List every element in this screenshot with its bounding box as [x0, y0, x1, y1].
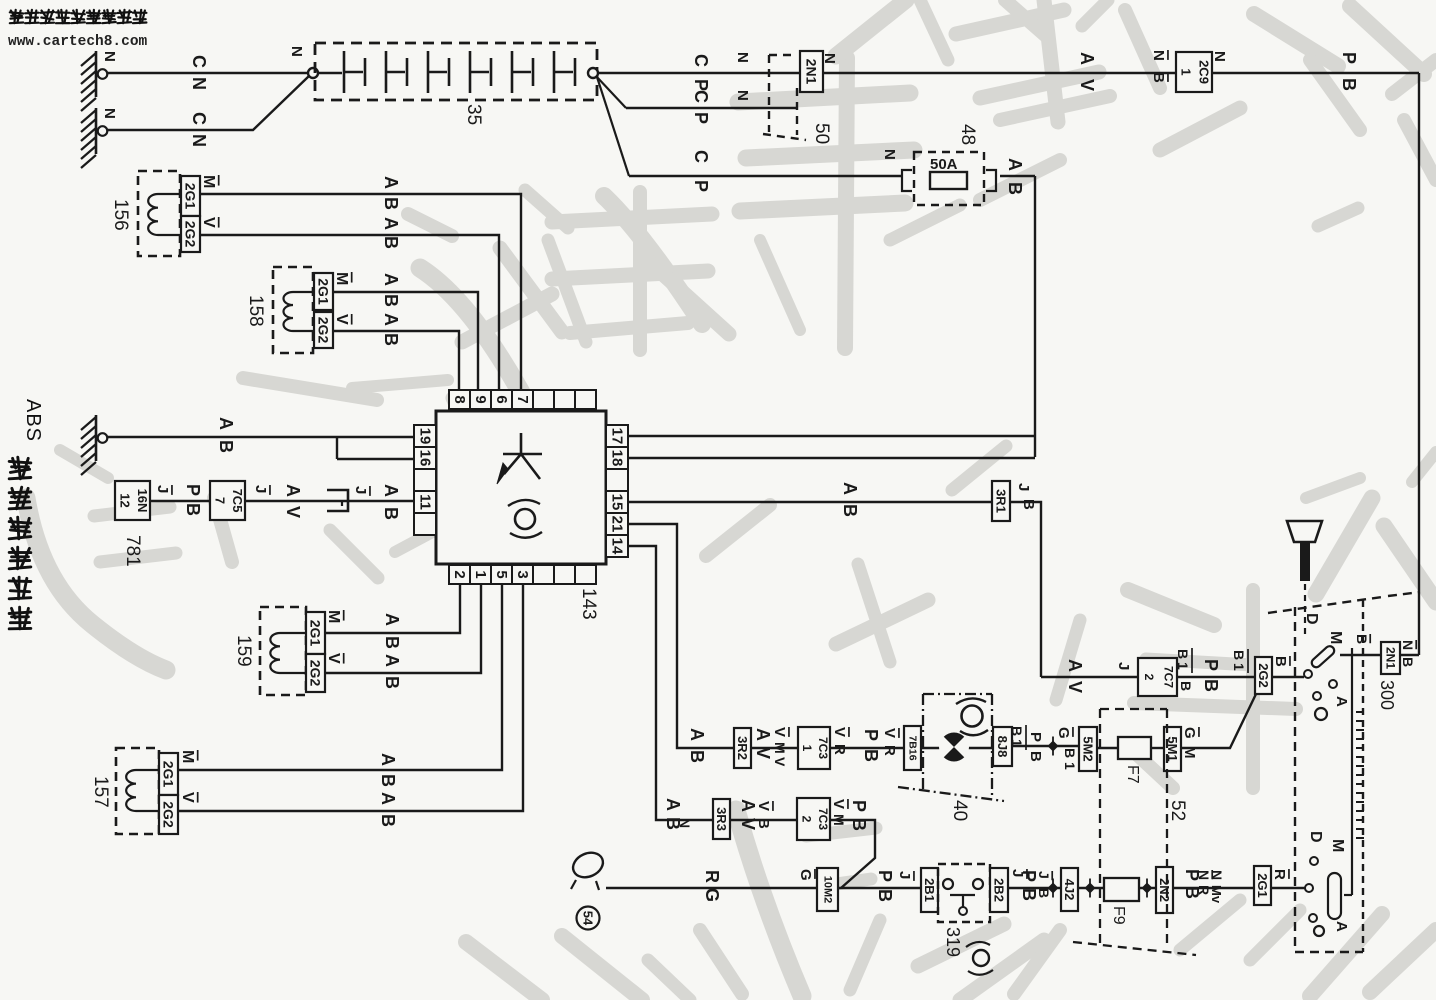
svg-text:2G1: 2G1 — [308, 620, 324, 647]
svg-text:N: N — [881, 149, 898, 160]
connector 3R1 — [992, 481, 1010, 521]
svg-text:50A: 50A — [930, 156, 958, 173]
wire 159 M to pin2 — [325, 585, 460, 633]
svg-text:C: C — [189, 55, 209, 68]
svg-text:7C5: 7C5 — [230, 489, 245, 513]
wire 10M2 to 2B1 — [838, 887, 921, 889]
svg-text:16: 16 — [417, 450, 434, 467]
svg-text:B: B — [849, 818, 869, 831]
svg-text:J: J — [1036, 871, 1052, 879]
svg-text:2: 2 — [451, 570, 468, 578]
ECU internal pump-arrow symbol — [503, 433, 542, 479]
svg-text:2N1: 2N1 — [804, 59, 820, 85]
svg-text:C: C — [691, 150, 711, 163]
site logo text — [10, 12, 23, 13]
svg-text:P: P — [1201, 659, 1221, 671]
wire AB to pin19 with branch to pin16 — [107, 436, 414, 438]
wire 5M1 to 2G2 (diagonal) — [1181, 694, 1256, 748]
svg-text:B: B — [1178, 681, 1194, 691]
wire 7C3-1 to 7B16 — [830, 747, 904, 749]
(O) symbol under 319 — [973, 950, 989, 966]
svg-text:15: 15 — [609, 494, 626, 511]
svg-text:A: A — [738, 799, 758, 812]
wire 2B2 to 4J2 — [1008, 887, 1061, 889]
connector 7C5 / 7 — [210, 481, 245, 520]
svg-text:A: A — [687, 728, 707, 741]
node junction right of connector 35 — [588, 68, 598, 78]
svg-text:www.cartech8.com: www.cartech8.com — [8, 34, 148, 50]
svg-text:R: R — [881, 745, 898, 756]
svg-text:159: 159 — [233, 635, 254, 667]
svg-text:B: B — [1354, 634, 1370, 644]
connector 5M1 — [1164, 727, 1181, 771]
svg-text:B: B — [381, 294, 401, 307]
connector 2G1 of 157 — [159, 753, 178, 795]
svg-text:V: V — [325, 653, 342, 664]
svg-text:B: B — [840, 504, 860, 517]
wheel speed sensor 156 (dashed) — [138, 171, 180, 256]
svg-text:P: P — [861, 729, 881, 741]
wire 781 to 7C5 — [150, 500, 210, 502]
svg-text:5: 5 — [493, 570, 510, 578]
pressure switch 319 (dashed) — [938, 864, 990, 922]
wire down from fuse to pins 17/18 — [1034, 176, 1036, 457]
fuse 48 50A (dashed box) — [914, 152, 984, 205]
connector 2N2 — [1156, 867, 1173, 913]
svg-text:2: 2 — [799, 816, 813, 823]
svg-text:B: B — [1201, 679, 1221, 692]
svg-text:B: B — [1027, 751, 1044, 762]
svg-text:V: V — [772, 757, 788, 767]
svg-text:16N: 16N — [135, 489, 150, 513]
connector 5M2 — [1079, 727, 1097, 771]
svg-text:A: A — [381, 484, 401, 497]
svg-text:V: V — [283, 506, 303, 518]
svg-text:12: 12 — [117, 493, 132, 507]
svg-text:B: B — [382, 676, 402, 689]
svg-text:B: B — [1231, 650, 1247, 660]
svg-text:B: B — [861, 749, 881, 762]
junction — [1085, 883, 1096, 894]
svg-text:V: V — [738, 818, 758, 830]
wire CP mid — [626, 107, 797, 109]
ground N (second) — [95, 108, 98, 154]
svg-text:2G2: 2G2 — [316, 317, 332, 344]
svg-text:17: 17 — [609, 428, 626, 445]
fuse F9 — [1104, 878, 1139, 901]
svg-text:N: N — [101, 51, 118, 62]
svg-text:7B16: 7B16 — [907, 735, 919, 760]
wheel speed sensor 158 (dashed) — [273, 267, 313, 353]
wire 156 V to pin6 — [200, 235, 499, 390]
svg-text:M: M — [200, 175, 217, 188]
wire 2G2 to ignition contact — [1272, 676, 1304, 678]
svg-text:7C7: 7C7 — [1161, 666, 1175, 688]
wire 7C3-2 to 10M2 (corner+diagonal) — [830, 820, 875, 888]
svg-text:J: J — [154, 485, 171, 493]
wire 2N2 to 2G1 — [1173, 887, 1254, 889]
svg-text:B: B — [382, 636, 402, 649]
svg-text:143: 143 — [578, 588, 599, 620]
svg-text:N: N — [189, 77, 209, 90]
connector 2N1 on feed wire — [800, 51, 823, 92]
wire pin14 down to valve row — [628, 546, 713, 820]
svg-text:52: 52 — [1167, 800, 1188, 821]
svg-text:19: 19 — [417, 428, 434, 445]
switch mechanical ladder ticks — [1356, 711, 1364, 713]
ground N (top) — [95, 51, 98, 97]
svg-text:R: R — [1271, 869, 1288, 880]
svg-text:G: G — [702, 888, 722, 902]
connector 2G2 of 159 — [306, 654, 325, 692]
connector 2G2 of 157 — [159, 795, 178, 834]
wire CN upper — [107, 72, 309, 74]
svg-text:3R1: 3R1 — [994, 489, 1009, 513]
svg-text:2N1: 2N1 — [1384, 647, 1398, 669]
svg-text:B: B — [1175, 649, 1191, 659]
wire right edge down to ignition switch — [1418, 73, 1420, 655]
svg-text:M: M — [772, 742, 788, 754]
svg-text:B: B — [183, 503, 203, 516]
svg-text:N: N — [1211, 51, 1228, 62]
connector 16N 12 (unit 781) — [115, 481, 150, 520]
svg-text:N: N — [734, 90, 751, 101]
svg-text:ABS: ABS — [22, 399, 44, 442]
wire CN lower with rise to node — [107, 76, 309, 130]
wire pin21 down to modulator row — [628, 524, 734, 748]
svg-text:3: 3 — [514, 570, 531, 578]
svg-text:1: 1 — [1179, 68, 1194, 75]
sensor 156 coil — [148, 194, 181, 235]
wire 2G1 to ignition contact — [1271, 887, 1308, 889]
svg-text:50: 50 — [811, 123, 832, 144]
svg-text:B: B — [1272, 656, 1289, 667]
wire 8J8 to 5M2 — [1012, 745, 1079, 747]
svg-text:F9: F9 — [1110, 906, 1127, 925]
svg-text:J: J — [252, 485, 269, 493]
svg-text:B: B — [1005, 182, 1025, 195]
svg-text:A: A — [381, 176, 401, 189]
fuse element — [930, 172, 967, 189]
svg-text:M: M — [1327, 631, 1344, 644]
svg-text:B: B — [755, 818, 772, 829]
connector 3R2 — [734, 728, 751, 768]
svg-text:J: J — [352, 486, 369, 494]
wire 157 M to pin5 — [178, 585, 502, 770]
svg-text:B: B — [1020, 499, 1037, 510]
wire 7C7 to 2G2 — [1177, 676, 1255, 678]
wire CP low to fuse — [629, 175, 901, 177]
fuse terminal right — [986, 170, 996, 191]
svg-text:1: 1 — [1009, 739, 1025, 747]
svg-text:2G1: 2G1 — [316, 278, 332, 305]
node junction left of connector 35 — [308, 68, 318, 78]
svg-text:B: B — [1400, 657, 1416, 667]
connector 2B1 — [921, 868, 938, 912]
fuse F7 — [1118, 737, 1151, 759]
svg-text:2N2: 2N2 — [1157, 878, 1172, 902]
svg-text:11: 11 — [417, 494, 434, 510]
svg-text:2G1: 2G1 — [183, 183, 199, 210]
connector 2G2 of 158 — [314, 312, 333, 348]
svg-text:B: B — [875, 889, 895, 902]
connector 2N1 (ignition feed) — [1381, 642, 1400, 674]
svg-text:A: A — [381, 217, 401, 230]
junction — [1142, 883, 1153, 894]
svg-text:M: M — [325, 610, 342, 623]
svg-text:A: A — [378, 792, 398, 805]
ignition switch housing 300 (dashed) — [1294, 607, 1296, 952]
svg-text:A: A — [753, 728, 773, 741]
sensor 159 coil — [270, 633, 307, 673]
connector 7B16 — [904, 726, 921, 770]
svg-text:N: N — [677, 818, 693, 828]
svg-text:A: A — [382, 613, 402, 626]
svg-text:156: 156 — [110, 199, 131, 231]
ECU bottom pin row — [449, 565, 470, 584]
junction — [1048, 741, 1059, 752]
svg-text:J: J — [896, 871, 913, 879]
svg-text:B: B — [216, 440, 236, 453]
svg-text:14: 14 — [609, 538, 626, 555]
svg-text:54: 54 — [581, 911, 596, 926]
svg-text:R: R — [831, 744, 848, 755]
svg-text:B: B — [381, 236, 401, 249]
wire lamp to 10M2 — [606, 887, 817, 889]
svg-text:B: B — [381, 197, 401, 210]
connector 4J2 — [1061, 868, 1078, 911]
ECU internal (O) symbol — [515, 509, 535, 529]
ground (ECU supply) — [95, 415, 98, 461]
svg-text:B: B — [1009, 726, 1025, 736]
svg-text:2: 2 — [1142, 674, 1156, 681]
svg-text:21: 21 — [609, 516, 626, 533]
svg-text:2G2: 2G2 — [183, 221, 199, 248]
svg-text:F7: F7 — [1124, 765, 1141, 784]
svg-text:A: A — [382, 654, 402, 667]
connector 8J8 — [993, 727, 1012, 766]
svg-text:N: N — [101, 108, 118, 119]
connector 2G2 (ignition) — [1255, 657, 1272, 694]
svg-text:N: N — [1209, 870, 1225, 880]
svg-text:6: 6 — [493, 395, 510, 403]
connector 7C7 / 2 — [1138, 658, 1177, 696]
svg-text:V: V — [831, 727, 848, 737]
wire through pump unit 40 — [921, 747, 993, 749]
inline clip connector on pin11 wire — [327, 490, 348, 511]
svg-text:G: G — [1181, 727, 1198, 739]
svg-text:V: V — [179, 792, 196, 803]
wire 3R2 to 7C3-1 — [751, 747, 798, 749]
label 54 circled — [577, 907, 600, 930]
svg-text:35: 35 — [463, 104, 484, 125]
svg-text:B: B — [381, 333, 401, 346]
svg-text:B: B — [378, 774, 398, 787]
svg-text:A: A — [1065, 659, 1085, 672]
svg-text:V: V — [200, 217, 217, 228]
svg-text:157: 157 — [90, 776, 111, 808]
svg-text:7C3: 7C3 — [816, 808, 830, 830]
fuse box 52 (dashed) — [1100, 709, 1167, 946]
wire fuse out to corner — [1000, 175, 1035, 177]
svg-text:P: P — [1339, 52, 1359, 64]
svg-text:2B1: 2B1 — [922, 878, 937, 902]
svg-text:40: 40 — [949, 800, 970, 821]
svg-text:B: B — [687, 750, 707, 763]
svg-text:V: V — [1077, 79, 1097, 91]
svg-text:A: A — [216, 417, 236, 430]
svg-text:D: D — [1303, 613, 1320, 625]
svg-text:5M2: 5M2 — [1081, 736, 1096, 761]
svg-text:M: M — [179, 750, 196, 763]
svg-text:N: N — [189, 134, 209, 147]
sensor 157 coil — [126, 770, 160, 811]
svg-text:2C9: 2C9 — [1197, 60, 1212, 84]
wire 3R1 to corner down to AV row — [1010, 502, 1041, 677]
svg-text:C: C — [189, 112, 209, 125]
svg-text:P: P — [875, 870, 895, 882]
connector 2G1 of 156 — [181, 176, 200, 216]
warning lamp 54 — [569, 848, 607, 882]
ignition key symbol — [1287, 521, 1322, 542]
svg-text:P: P — [183, 484, 203, 496]
svg-text:J: J — [1115, 662, 1132, 670]
svg-text:A: A — [840, 482, 860, 495]
connector 2B2 — [990, 868, 1008, 912]
svg-text:319: 319 — [943, 927, 963, 957]
svg-text:A: A — [1077, 52, 1097, 65]
wire 158 V to pin8 — [333, 331, 459, 390]
svg-text:N: N — [1400, 640, 1416, 650]
wheel speed sensor 157 (dashed) — [116, 748, 159, 834]
svg-text:B: B — [378, 814, 398, 827]
wire 5M2 to F7 — [1097, 747, 1118, 749]
wire branch to CP low — [597, 77, 629, 176]
svg-text:18: 18 — [609, 450, 626, 467]
dashed link key to switch — [1304, 584, 1306, 634]
svg-text:V: V — [830, 799, 847, 809]
wire 157 V to pin3 — [178, 585, 523, 811]
wire branch to CP mid — [596, 76, 626, 108]
wire feed top (to right edge) — [598, 72, 1419, 74]
wire 4J2 to F9 — [1078, 887, 1104, 889]
svg-text:V: V — [881, 728, 898, 738]
ECU top pin row — [449, 390, 470, 409]
svg-text:1: 1 — [1175, 662, 1191, 670]
svg-text:B: B — [1339, 78, 1359, 91]
svg-text:B: B — [1019, 888, 1039, 901]
stop switch 50 (dashed) — [768, 55, 770, 132]
ABS ECU 143 body — [436, 411, 606, 564]
svg-text:A: A — [283, 484, 303, 497]
svg-text:C: C — [691, 54, 711, 67]
svg-text:7C3: 7C3 — [816, 737, 830, 759]
svg-text:N: N — [1150, 50, 1167, 61]
wire 3R3 to 7C3-2 — [730, 819, 797, 821]
wheel speed sensor 159 (dashed) — [260, 607, 306, 695]
svg-text:V: V — [771, 727, 788, 737]
connector 2G1 (ignition) — [1254, 866, 1271, 905]
svg-text:P: P — [1019, 870, 1039, 882]
svg-text:8: 8 — [451, 395, 468, 403]
wire 156 M to pin7 — [200, 194, 521, 390]
svg-text:V: V — [1065, 681, 1085, 693]
ECU right pin column — [606, 425, 628, 447]
svg-text:P: P — [691, 180, 711, 192]
svg-text:V: V — [755, 801, 772, 811]
svg-text:A: A — [1333, 921, 1350, 932]
svg-text:A: A — [663, 798, 683, 811]
wire 2N1 into switch — [1340, 654, 1381, 656]
svg-text:A: A — [1005, 158, 1025, 171]
svg-text:A: A — [1333, 696, 1350, 707]
svg-text:B: B — [381, 507, 401, 520]
switch internal link bar — [1351, 648, 1353, 895]
wire F7 to 5M1 — [1151, 747, 1164, 749]
svg-text:2G2: 2G2 — [1256, 663, 1271, 688]
svg-text:3R3: 3R3 — [714, 807, 729, 831]
svg-text:D: D — [1307, 831, 1324, 843]
wire 159 V to pin1 — [325, 585, 481, 673]
svg-text:A: A — [381, 273, 401, 286]
svg-text:9: 9 — [472, 395, 489, 403]
svg-text:M: M — [1329, 839, 1346, 852]
svg-text:B: B — [1150, 72, 1167, 83]
svg-text:2G1: 2G1 — [1255, 873, 1270, 898]
svg-text:1: 1 — [472, 570, 489, 578]
svg-text:1: 1 — [1231, 663, 1247, 671]
svg-text:P: P — [691, 112, 711, 124]
switch 319 contacts — [943, 879, 953, 889]
connector 2C9 / 1 — [1176, 52, 1212, 92]
svg-text:7: 7 — [514, 395, 531, 403]
svg-text:48: 48 — [957, 124, 978, 145]
connector 10M2 — [817, 868, 838, 911]
(O) symbol in pump box — [962, 706, 983, 727]
svg-text:J: J — [1015, 483, 1032, 491]
connector 7C3 / 2 — [797, 798, 830, 840]
svg-text:7: 7 — [212, 497, 227, 504]
svg-text:N: N — [734, 52, 751, 63]
svg-text:10M2: 10M2 — [822, 876, 834, 904]
wire F9 to 2N2 — [1139, 887, 1156, 889]
svg-text:3R2: 3R2 — [735, 736, 750, 760]
wire AV row to 7C7 — [1041, 676, 1138, 678]
svg-text:P: P — [1027, 732, 1044, 742]
ECU left pin column — [414, 425, 436, 447]
connector 2G2 of 156 — [181, 216, 200, 252]
svg-text:G: G — [797, 869, 814, 881]
svg-text:N: N — [821, 53, 838, 64]
svg-text:300: 300 — [1377, 680, 1397, 710]
connector 7C3 / 1 — [798, 727, 830, 769]
wire right edge into 2N1 — [1400, 654, 1419, 656]
svg-text:M: M — [333, 272, 350, 285]
fuse terminal left — [902, 170, 912, 191]
svg-text:G: G — [1055, 727, 1072, 739]
svg-text:2G2: 2G2 — [161, 801, 177, 828]
svg-text:2B2: 2B2 — [992, 878, 1007, 902]
wire pin15 to 3R1 — [628, 501, 992, 503]
svg-text:B: B — [1062, 748, 1078, 758]
svg-text:1: 1 — [1062, 762, 1078, 770]
wire pin18 to supply vertical — [628, 457, 1035, 460]
connector 3R3 — [713, 799, 730, 839]
svg-text:N: N — [288, 46, 305, 57]
svg-text:2G1: 2G1 — [161, 761, 177, 788]
multiple connector 35 (dashed) — [315, 43, 597, 100]
svg-text:M: M — [831, 814, 847, 826]
